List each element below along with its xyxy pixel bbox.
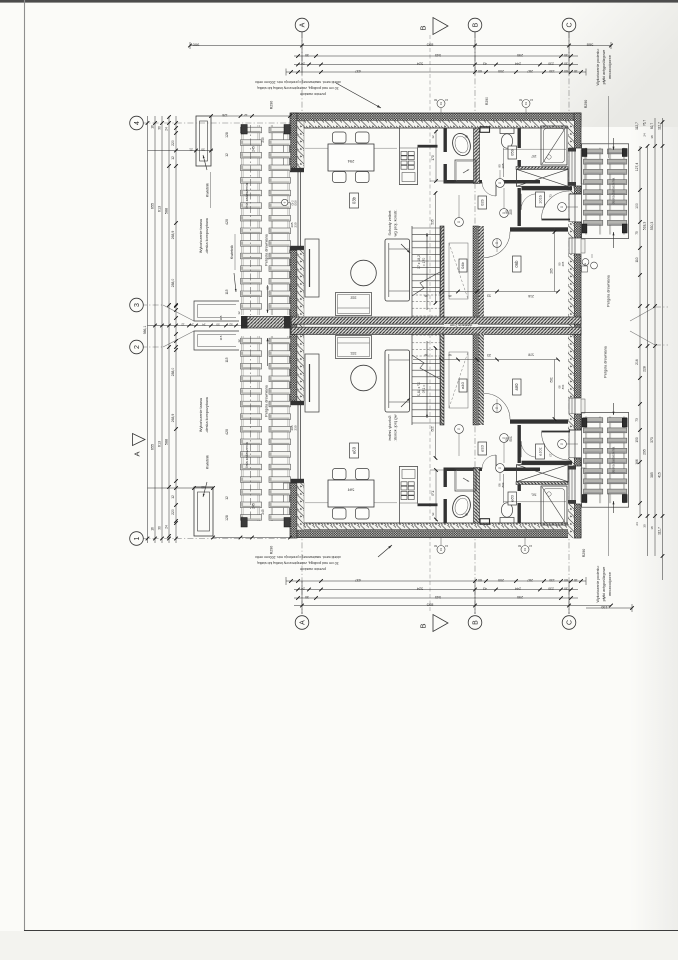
- grid axis A vertical: [301, 32, 303, 614]
- top dimension chain line 4: [286, 69, 586, 76]
- exterior wall right lower corner segment: [568, 504, 581, 538]
- svg-text:244: 244: [515, 62, 521, 66]
- svg-text:655: 655: [151, 444, 155, 450]
- coffee table a: [351, 365, 377, 391]
- kwietnik label upper: [203, 155, 211, 208]
- svg-text:-deska kompozytowa: -deska kompozytowa: [205, 396, 209, 433]
- room tag 05b: [508, 146, 517, 159]
- pergola drewniana label upper: [265, 233, 269, 313]
- right chain labels top: [635, 120, 662, 139]
- svg-text:płytki antypoślizgowe: płytki antypoślizgowe: [602, 567, 606, 602]
- unit interior walls a: [440, 334, 572, 524]
- exterior wall left middle segment: [290, 250, 304, 401]
- svg-text:200: 200: [498, 69, 504, 73]
- terrace width dim labels: [225, 132, 265, 521]
- svg-text:216: 216: [635, 359, 639, 365]
- bottom grid stubs: [302, 581, 569, 614]
- svg-text:30 cm nad podłogą, zabezpieczo: 30 cm nad podłogą, zabezpieczony kratką …: [257, 561, 338, 565]
- svg-text:B: B: [419, 623, 428, 628]
- svg-text:Kwietnik: Kwietnik: [206, 183, 210, 197]
- svg-text:265: 265: [550, 377, 554, 383]
- dashed attic outline a: [449, 352, 468, 408]
- svg-text:112,7: 112,7: [658, 527, 662, 535]
- svg-text:288,0: 288,0: [171, 368, 175, 377]
- left chain ticks: [146, 115, 178, 540]
- svg-text:115: 115: [225, 357, 229, 362]
- svg-text:0: 0: [560, 443, 564, 445]
- svg-text:B: B: [419, 25, 428, 30]
- svg-text:96: 96: [424, 353, 428, 357]
- bottom dimension chain line 1: [286, 577, 586, 585]
- svg-text:60: 60: [478, 578, 482, 582]
- svg-text:30: 30: [643, 524, 647, 528]
- washbasin b: [450, 131, 473, 158]
- svg-text:24: 24: [301, 587, 305, 591]
- svg-text:332: 332: [351, 351, 357, 355]
- svg-text:127,4: 127,4: [635, 163, 639, 172]
- svg-text:34: 34: [202, 323, 206, 327]
- svg-text:288,0: 288,0: [171, 279, 175, 288]
- pergola drewniana label right upper: [592, 254, 611, 307]
- svg-text:130: 130: [549, 69, 555, 73]
- vent note top: [255, 80, 381, 108]
- left dimension chain lines: [143, 116, 180, 543]
- party wall upper leaf: [291, 317, 581, 324]
- svg-text:A: A: [299, 620, 306, 625]
- grid bubble C bottom: [562, 616, 576, 630]
- svg-text:115: 115: [219, 315, 223, 320]
- svg-text:228: 228: [643, 366, 647, 372]
- svg-text:przeciw owadom: przeciw owadom: [300, 567, 326, 571]
- section line B-B: [429, 35, 431, 612]
- svg-text:415: 415: [658, 472, 662, 478]
- svg-text:Wykończenie tarasu: Wykończenie tarasu: [199, 219, 203, 253]
- svg-text:73: 73: [635, 418, 639, 422]
- room tag 05a: [508, 492, 517, 505]
- svg-text:dylatacja 2 cm: dylatacja 2 cm: [450, 323, 472, 327]
- svg-text:895: 895: [426, 43, 433, 48]
- svg-text:73: 73: [549, 453, 553, 457]
- svg-text:244: 244: [515, 587, 521, 591]
- svg-text:50: 50: [201, 485, 205, 489]
- svg-text:655: 655: [151, 203, 155, 209]
- svg-text:= 170: = 170: [422, 258, 426, 267]
- svg-text:12: 12: [225, 153, 229, 157]
- svg-text:deska zadaszenia: deska zadaszenia: [612, 447, 616, 474]
- svg-text:0: 0: [457, 221, 461, 223]
- svg-text:12: 12: [225, 496, 229, 500]
- svg-text:52: 52: [229, 323, 233, 327]
- svg-text:02b: 02b: [480, 198, 485, 205]
- svg-text:385: 385: [650, 472, 654, 478]
- exterior wall right segment 7: [568, 458, 581, 466]
- svg-text:01: 01: [523, 548, 527, 552]
- svg-text:535: 535: [431, 426, 435, 432]
- svg-text:Pergola drewniana: Pergola drewniana: [265, 233, 269, 266]
- svg-text:18: 18: [574, 578, 578, 582]
- kwietnik label lower: [230, 234, 237, 292]
- right dimension chain lines: [640, 118, 663, 580]
- svg-text:230: 230: [548, 587, 554, 591]
- wardrobe a: [517, 465, 569, 482]
- svg-text:30: 30: [158, 526, 162, 530]
- svg-text:12: 12: [181, 323, 185, 327]
- grid axis 2 horizontal: [141, 346, 163, 348]
- svg-text:Kwietnik: Kwietnik: [206, 455, 210, 469]
- svg-text:294: 294: [347, 487, 354, 492]
- exterior wall left lower corner segment: [290, 483, 304, 538]
- svg-text:30: 30: [564, 62, 568, 66]
- tv cabinet b: [305, 239, 319, 297]
- svg-text:568: 568: [586, 43, 593, 48]
- wykonczenie tarasu note lower: [199, 396, 209, 433]
- svg-text:73: 73: [549, 194, 553, 198]
- kitchen dim line b: [430, 130, 447, 183]
- dylatacja label: [444, 324, 478, 327]
- svg-text:mrozoodporne: mrozoodporne: [608, 55, 612, 79]
- svg-text:18: 18: [650, 526, 654, 530]
- svg-text:17 x 18,2: 17 x 18,2: [417, 255, 421, 269]
- exterior wall right middle segment: [568, 254, 581, 398]
- exterior wall bottom: [291, 523, 581, 538]
- sliding glass door left upper: [290, 168, 304, 250]
- grid bubble B top: [468, 18, 482, 32]
- stairs b: [412, 226, 441, 317]
- svg-text:128: 128: [225, 515, 229, 521]
- svg-text:545: 545: [435, 53, 441, 57]
- svg-text:205: 205: [561, 385, 565, 390]
- svg-text:30: 30: [564, 587, 568, 591]
- terrace drain symbol: [282, 199, 298, 205]
- grid axis 4 horizontal: [141, 122, 292, 124]
- bottom dimension chain line 3: [294, 595, 578, 600]
- dining table a: [328, 480, 374, 507]
- svg-text:B: B: [472, 620, 479, 625]
- svg-text:Schody żelbet: Schody żelbet: [387, 415, 392, 441]
- svg-text:1: 1: [134, 536, 141, 540]
- podest dim -150: [586, 604, 634, 612]
- terrace dim line top: [209, 113, 292, 118]
- svg-text:24: 24: [165, 127, 169, 131]
- top dimension chain line 2: [294, 53, 578, 58]
- shower b: [541, 126, 567, 165]
- svg-text:230: 230: [548, 62, 554, 66]
- svg-text:16: 16: [151, 125, 155, 129]
- pergola right upper leader arrows: [613, 138, 615, 150]
- kitchen counter a: [400, 466, 438, 523]
- svg-text:420: 420: [225, 219, 229, 225]
- lower unit (mirrored): [305, 334, 578, 525]
- grid axis 1 horizontal: [141, 538, 292, 540]
- svg-text:437: 437: [355, 578, 361, 582]
- svg-text:G: G: [583, 263, 587, 265]
- svg-text:112,7: 112,7: [635, 122, 639, 130]
- svg-text:43: 43: [483, 62, 487, 66]
- grid axis C vertical: [568, 32, 570, 614]
- svg-text:200: 200: [498, 578, 504, 582]
- svg-text:2: 2: [134, 345, 141, 349]
- svg-text:30 cm nad podłogą, zabezpieczo: 30 cm nad podłogą, zabezpieczony kratką …: [257, 86, 338, 90]
- svg-text:01: 01: [439, 102, 443, 106]
- pergola right upper: [582, 144, 629, 239]
- svg-text:110: 110: [635, 257, 639, 262]
- svg-text:12: 12: [431, 512, 435, 516]
- svg-text:332: 332: [351, 296, 357, 300]
- svg-text:17 x 18,2: 17 x 18,2: [417, 382, 421, 396]
- washing machine a: [455, 469, 476, 492]
- svg-text:12: 12: [237, 339, 241, 343]
- schody zelbet note b: [387, 210, 410, 253]
- top grid stubs: [302, 32, 569, 75]
- bottom dimension chain line 2: [294, 587, 578, 592]
- toilet a: [500, 503, 514, 523]
- svg-text:205: 205: [501, 163, 505, 168]
- svg-text:265: 265: [550, 268, 554, 274]
- room tag 03b: [350, 193, 359, 208]
- svg-text:C: C: [566, 22, 573, 27]
- terrace divider structure lower outline: [194, 331, 239, 350]
- svg-text:18: 18: [574, 69, 578, 73]
- svg-text:75: 75: [635, 231, 639, 235]
- svg-text:obiekt went. nawiewowej o prze: obiekt went. nawiewowej o przekroju min.…: [255, 555, 341, 559]
- sofa a: [385, 350, 410, 412]
- terrace posts upper: [241, 125, 290, 152]
- svg-text:04b: 04b: [460, 261, 465, 268]
- svg-text:900: 900: [192, 43, 199, 48]
- svg-text:Pergola drewniana: Pergola drewniana: [265, 384, 269, 417]
- svg-text:245: 245: [252, 503, 256, 509]
- top dimension chain line 3: [294, 62, 578, 67]
- room tag 04b: [459, 259, 467, 272]
- svg-text:170: 170: [431, 155, 435, 161]
- chairs b: [333, 132, 370, 183]
- svg-text:101a: 101a: [539, 447, 543, 456]
- svg-text:535: 535: [431, 219, 435, 225]
- exterior wall right segment 3: [568, 222, 581, 238]
- svg-text:Pergola drewniana: Pergola drewniana: [607, 274, 611, 307]
- svg-text:205: 205: [561, 261, 565, 266]
- svg-text:60: 60: [564, 69, 568, 73]
- terrace pergola beams upper: [241, 125, 291, 315]
- grid axis 2 jog to party wall: [163, 331, 194, 347]
- svg-text:150: 150: [635, 437, 639, 443]
- grid axis jog right side lower: [630, 331, 655, 345]
- svg-text:05a: 05a: [510, 495, 515, 502]
- svg-text:24: 24: [643, 133, 647, 137]
- svg-text:R290: R290: [485, 97, 489, 105]
- svg-text:-deska kompozytowa: -deska kompozytowa: [205, 217, 209, 254]
- grid axis 3 horizontal: [141, 304, 163, 306]
- scan frame left line: [24, 0, 26, 931]
- svg-text:24: 24: [301, 62, 305, 66]
- floor zone line upper: [305, 147, 397, 149]
- svg-text:230: 230: [294, 425, 298, 430]
- svg-text:30: 30: [158, 126, 162, 130]
- grid bubble 3: [130, 298, 144, 312]
- bedroom dims b: [413, 228, 565, 298]
- exterior wall right upper corner segment: [568, 113, 581, 148]
- door right entry lower: [569, 430, 581, 458]
- room tag 02b: [478, 196, 487, 209]
- svg-text:24: 24: [165, 525, 169, 529]
- tv cabinet a: [305, 354, 319, 412]
- svg-text:95: 95: [266, 286, 270, 290]
- symbol circles a: [455, 399, 578, 481]
- svg-text:12: 12: [244, 113, 248, 117]
- svg-text:420: 420: [225, 429, 229, 435]
- svg-text:05b: 05b: [510, 148, 515, 155]
- svg-text:53: 53: [487, 294, 491, 298]
- floor zone line lower: [305, 502, 397, 504]
- interior dims a: [497, 436, 566, 503]
- svg-text:50: 50: [201, 148, 205, 152]
- bedroom dims a: [413, 353, 565, 423]
- svg-text:373: 373: [650, 437, 654, 443]
- svg-text:26: 26: [448, 294, 452, 298]
- svg-text:12: 12: [171, 156, 175, 160]
- room tag 06b: [513, 256, 522, 272]
- svg-text:245: 245: [252, 146, 256, 152]
- grid bubble 2: [130, 340, 144, 354]
- wykonczenie podestu note top-right: [596, 48, 612, 158]
- room tag 01b: [536, 192, 545, 207]
- scan frame bottom line: [24, 930, 678, 932]
- svg-text:128: 128: [225, 132, 229, 138]
- wardrobe b: [517, 169, 569, 186]
- svg-text:Wykończenie tarasu: Wykończenie tarasu: [199, 398, 203, 432]
- svg-text:115: 115: [219, 335, 223, 340]
- wykonczenie podestu note bottom-right: [596, 493, 612, 603]
- living dim line b: [431, 191, 438, 305]
- terrace divider structure upper outline: [194, 301, 239, 321]
- svg-text:205: 205: [509, 209, 513, 215]
- utility symbols right wall: [582, 259, 598, 272]
- section marker B bottom: [419, 615, 449, 632]
- svg-text:100: 100: [635, 203, 639, 209]
- exterior wall left upper corner segment: [290, 113, 304, 168]
- svg-text:268,9: 268,9: [171, 414, 175, 423]
- svg-text:216: 216: [528, 294, 534, 298]
- svg-text:26: 26: [448, 353, 452, 357]
- grid axis jog right side upper: [630, 307, 655, 321]
- terrace posts lower: [241, 503, 290, 527]
- svg-text:R290: R290: [584, 100, 588, 109]
- right chain ticks: [638, 120, 664, 558]
- planter lower (kwietnik): [194, 487, 213, 536]
- svg-text:01: 01: [439, 548, 443, 552]
- svg-text:82,7: 82,7: [650, 123, 654, 129]
- svg-text:52: 52: [248, 316, 252, 320]
- svg-text:C: C: [566, 620, 573, 625]
- svg-text:24: 24: [635, 522, 639, 526]
- vent note bottom: [255, 545, 392, 571]
- exterior wall right segment 6: [568, 414, 581, 430]
- svg-text:wg proj. konstr.: wg proj. konstr.: [393, 210, 398, 237]
- svg-text:Pergola drewniana: Pergola drewniana: [604, 345, 608, 378]
- pergola right lower: [582, 413, 629, 508]
- svg-text:R290: R290: [270, 546, 274, 555]
- svg-text:12: 12: [171, 495, 175, 499]
- grid bubble A bottom: [295, 616, 309, 630]
- svg-text:245: 245: [261, 509, 265, 515]
- svg-text:0: 0: [457, 428, 461, 430]
- svg-text:-150: -150: [601, 605, 609, 609]
- wykonczenie tarasu note upper: [199, 217, 209, 254]
- svg-text:30: 30: [305, 595, 309, 599]
- svg-text:linia zadaszenia: linia zadaszenia: [245, 442, 249, 468]
- svg-text:38: 38: [650, 135, 654, 139]
- window right upper 1: [568, 148, 585, 186]
- grid bubble 4: [130, 116, 144, 130]
- svg-text:01: 01: [524, 102, 528, 106]
- room tag 02a: [478, 442, 487, 455]
- svg-text:21: 21: [189, 148, 193, 152]
- svg-text:588: 588: [165, 208, 169, 214]
- svg-text:06a: 06a: [514, 384, 519, 392]
- svg-text:linia zadaszenia: linia zadaszenia: [245, 183, 249, 209]
- svg-text:101b: 101b: [539, 195, 543, 203]
- grid bubble C top: [562, 18, 576, 32]
- living dim line a: [431, 346, 438, 460]
- svg-text:76,7: 76,7: [643, 120, 647, 126]
- stairs a: [412, 334, 441, 425]
- svg-text:obiekt went. nawiewowej o prze: obiekt went. nawiewowej o przekroju min.…: [255, 80, 341, 84]
- svg-text:0: 0: [498, 467, 502, 469]
- svg-text:986,1: 986,1: [143, 326, 147, 335]
- terrace dim line bottom: [211, 536, 292, 540]
- svg-text:deska zadaszenia: deska zadaszenia: [612, 178, 616, 205]
- svg-text:A: A: [299, 22, 306, 27]
- party wall lower leaf: [291, 327, 581, 334]
- svg-text:197: 197: [531, 493, 537, 497]
- room tag 06a: [513, 379, 522, 395]
- outside sill box lower: [284, 483, 291, 518]
- interior dims b: [497, 148, 566, 215]
- left chain labels lower: [151, 368, 176, 531]
- left middle dim line: [148, 311, 253, 343]
- svg-text:290: 290: [517, 595, 523, 599]
- svg-text:530,3: 530,3: [650, 222, 654, 231]
- svg-text:115: 115: [225, 289, 229, 294]
- exterior wall top: [291, 113, 581, 128]
- svg-text:205: 205: [501, 482, 505, 487]
- svg-text:mrozoodporne: mrozoodporne: [608, 572, 612, 596]
- svg-text:04a: 04a: [460, 382, 465, 389]
- window right upper 2: [569, 238, 585, 254]
- svg-text:437: 437: [355, 69, 361, 73]
- room tag 03a: [350, 443, 359, 458]
- svg-text:wg proj. konstr.: wg proj. konstr.: [393, 415, 398, 442]
- roof line lower: [245, 336, 251, 521]
- pergola right lower leader arrows: [613, 403, 615, 415]
- svg-text:294: 294: [347, 159, 354, 164]
- svg-text:524: 524: [417, 587, 423, 591]
- exterior wall right segment 2: [568, 186, 581, 194]
- dining table b: [328, 144, 374, 171]
- svg-text:230: 230: [294, 222, 298, 227]
- svg-text:220: 220: [171, 509, 175, 515]
- svg-text:12: 12: [237, 311, 241, 315]
- door arcs b: [482, 182, 570, 258]
- svg-text:24: 24: [190, 323, 194, 327]
- svg-text:Wykończenie podestu:: Wykończenie podestu:: [596, 565, 600, 602]
- pergola drewniana label lower: [265, 338, 269, 417]
- washbasin a: [450, 493, 473, 520]
- svg-text:130: 130: [549, 578, 555, 582]
- svg-text:170: 170: [431, 490, 435, 496]
- svg-text:166: 166: [635, 459, 639, 465]
- svg-text:50: 50: [216, 323, 220, 327]
